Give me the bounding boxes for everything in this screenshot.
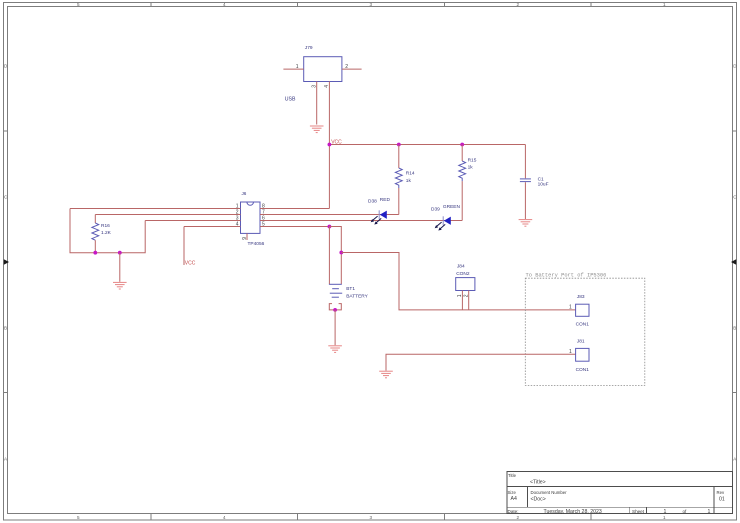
pin 4 of J6 + wire to VCC (184, 222, 241, 228)
svg-text:Title: Title (508, 473, 517, 478)
svg-text:D38: D38 (368, 199, 377, 205)
svg-text:10uF: 10uF (538, 182, 549, 188)
svg-text:1k: 1k (406, 178, 412, 184)
svg-text:CON1: CON1 (576, 367, 590, 373)
junction at pin5 / battery node (328, 225, 332, 229)
svg-text:J6: J6 (242, 191, 247, 196)
svg-text:4: 4 (236, 222, 239, 228)
svg-text:RED: RED (380, 197, 391, 203)
wire branch to connectors (341, 253, 575, 310)
svg-text:Tuesday, March 28, 2023: Tuesday, March 28, 2023 (544, 509, 602, 515)
svg-text:D39: D39 (431, 206, 440, 212)
svg-text:1: 1 (457, 294, 463, 297)
wire battery left lead (328, 227, 330, 285)
resistor R14 (395, 145, 415, 215)
svg-text:CON2: CON2 (456, 271, 470, 277)
svg-text:2: 2 (464, 294, 470, 297)
wire to J81 with ground (386, 354, 576, 370)
svg-text:Document Number: Document Number (531, 490, 568, 495)
connector J81 CON1 (576, 339, 590, 374)
resistor R16 (92, 215, 112, 253)
svg-text:GREEN: GREEN (443, 204, 461, 210)
wire ground stub (119, 253, 121, 282)
svg-text:4: 4 (223, 515, 226, 520)
ground under J79 pin3 (310, 126, 324, 133)
svg-text:R14: R14 (406, 171, 415, 177)
pin 7 of J6 + wire through D38 (260, 210, 399, 216)
connector J83 CON1 (576, 294, 590, 327)
svg-text:BT1: BT1 (346, 286, 355, 292)
junction at R16 bottom (93, 251, 97, 255)
svg-text:B: B (4, 326, 7, 331)
svg-text:J81: J81 (577, 339, 585, 345)
svg-text:4: 4 (223, 2, 226, 7)
wire left bus: pin1 down, along bottom, up to pin3 (70, 209, 145, 253)
svg-text:1: 1 (663, 2, 666, 7)
junction at ground tap (118, 251, 122, 255)
power VCC at J6 pin4 (184, 227, 196, 267)
svg-text:2: 2 (517, 515, 520, 520)
wire VCC to pin8 (328, 145, 330, 209)
svg-text:1: 1 (708, 509, 711, 515)
ground under C1 (519, 220, 533, 227)
IC J6 TP4056 (241, 191, 265, 247)
pin 5 of J6 (260, 222, 329, 228)
pin 2 of J6 + wire to R16 (95, 210, 240, 216)
svg-text:<Title>: <Title> (530, 479, 546, 485)
TITLEBLOCK (507, 472, 733, 514)
LED D39 (GREEN) (431, 204, 460, 231)
junction at battery bottom (333, 308, 337, 312)
pin 8 of J6 (260, 204, 329, 210)
svg-text:Rev: Rev (717, 490, 725, 495)
svg-text:<Doc>: <Doc> (531, 497, 546, 503)
svg-text:9: 9 (242, 237, 248, 240)
wire VCC rail (329, 144, 525, 146)
pin 4 of J79 (324, 82, 330, 145)
svg-text:3: 3 (370, 2, 373, 7)
svg-text:1: 1 (569, 305, 572, 311)
junction at R15 top (460, 143, 464, 147)
svg-text:A4: A4 (511, 496, 517, 502)
svg-text:R15: R15 (468, 158, 477, 164)
svg-text:5: 5 (77, 2, 80, 7)
ground under R16 bus (113, 282, 127, 289)
svg-text:Date:: Date: (508, 509, 519, 514)
pin 1 of J84 (457, 291, 463, 310)
LED D38 (RED) (368, 197, 390, 225)
svg-text:B: B (733, 326, 736, 331)
svg-text:1: 1 (569, 349, 572, 355)
svg-text:3: 3 (312, 85, 318, 88)
svg-text:2: 2 (345, 64, 348, 70)
svg-text:5: 5 (77, 515, 80, 520)
svg-text:CON1: CON1 (576, 322, 590, 328)
svg-text:USB: USB (285, 96, 296, 102)
svg-text:01: 01 (719, 496, 725, 502)
pin 1 of J79 (283, 64, 303, 70)
svg-text:TP4056: TP4056 (248, 241, 265, 247)
battery BT1 (329, 284, 369, 310)
svg-text:VCC: VCC (185, 261, 196, 267)
svg-text:J84: J84 (457, 263, 465, 269)
ground under BT1 (328, 346, 342, 353)
svg-text:4: 4 (324, 85, 330, 88)
ground on J81 net (379, 371, 393, 378)
svg-text:J79: J79 (305, 45, 313, 51)
capacitor C1 (520, 145, 549, 220)
pin 2 of J79 (342, 64, 362, 70)
svg-text:3: 3 (370, 515, 373, 520)
svg-text:BATTERY: BATTERY (346, 294, 368, 300)
pin 3 of J6 + wire (145, 216, 240, 222)
svg-text:R16: R16 (101, 223, 110, 229)
svg-text:1.2K: 1.2K (101, 230, 112, 236)
junction at VCC rail / J79 pin4 (328, 143, 332, 147)
resistor R15 (459, 145, 477, 221)
svg-text:1: 1 (664, 509, 667, 515)
svg-text:1: 1 (296, 64, 299, 70)
svg-text:Sheet: Sheet (632, 509, 645, 514)
svg-text:1: 1 (663, 515, 666, 520)
wire battery to ground (334, 310, 336, 345)
pin 9 of J6 (242, 233, 248, 240)
svg-text:J83: J83 (577, 294, 585, 300)
wire battery right lead with jog (329, 227, 341, 285)
svg-text:To Battery Port of IP5306: To Battery Port of IP5306 (526, 273, 607, 279)
svg-text:5: 5 (262, 222, 265, 228)
svg-text:Size: Size (508, 490, 517, 495)
svg-text:2: 2 (517, 2, 520, 7)
pin 1 of J6 + wire to left bus (70, 204, 241, 210)
junction on battery right lead (339, 251, 343, 255)
dashed box (525, 278, 645, 385)
junction at R14 top (397, 143, 401, 147)
pin 3 of J79 (312, 82, 318, 125)
connector J79 (285, 45, 342, 102)
pin 6 of J6 + wire through D39 (260, 216, 462, 222)
connector J84 CON2 (456, 263, 475, 290)
pin 2 of J84 (464, 291, 470, 310)
svg-text:1k: 1k (468, 165, 474, 171)
